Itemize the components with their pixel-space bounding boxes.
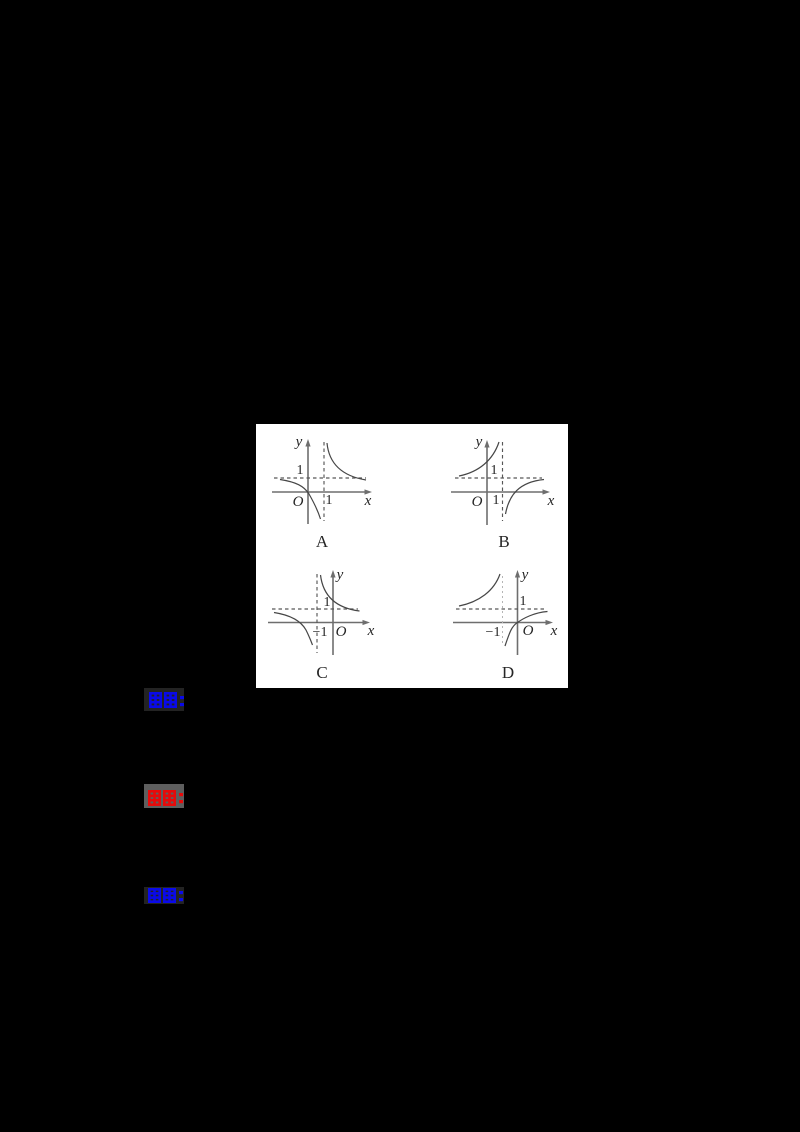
svg-text:C: C bbox=[316, 663, 327, 682]
svg-text:O: O bbox=[472, 494, 483, 510]
svg-text:D: D bbox=[502, 663, 514, 682]
graph D dashed horizontal asymptote y=1 bbox=[456, 608, 545, 610]
graph A dashed horizontal asymptote y=1 bbox=[274, 477, 366, 479]
graph A curve upper-right branch bbox=[327, 443, 366, 480]
graph C dashed horizontal asymptote y=1 bbox=[272, 608, 358, 610]
graph D curve lower-right branch bbox=[505, 612, 548, 647]
graph C x-axis bbox=[268, 622, 367, 624]
graph D y-axis bbox=[517, 574, 519, 655]
svg-text:y: y bbox=[335, 567, 344, 583]
svg-text:y: y bbox=[294, 434, 303, 450]
graph D curve upper-left branch bbox=[459, 574, 500, 606]
graph C curve upper-right branch bbox=[321, 575, 360, 611]
svg-text:O: O bbox=[523, 623, 534, 639]
graph C y-axis bbox=[332, 574, 334, 655]
svg-text:B: B bbox=[498, 532, 509, 551]
graph B dashed horizontal asymptote y=1 bbox=[455, 477, 542, 479]
svg-text:y: y bbox=[520, 567, 529, 583]
svg-text:x: x bbox=[550, 623, 558, 639]
graph B dashed vertical asymptote x=1 bbox=[502, 442, 504, 521]
svg-text:1: 1 bbox=[491, 463, 498, 478]
graph A dashed vertical asymptote x=1 bbox=[323, 442, 325, 521]
blue annotation label 1 (blurred Chinese text) bbox=[144, 688, 192, 716]
graph C dashed vertical asymptote x=-1 bbox=[316, 574, 318, 653]
svg-text:−1: −1 bbox=[313, 625, 328, 640]
graph A y-axis bbox=[307, 443, 309, 524]
red annotation label (blurred Chinese text on gray highlight) bbox=[144, 784, 194, 817]
svg-text:1: 1 bbox=[493, 493, 500, 508]
svg-text:y: y bbox=[474, 434, 483, 450]
svg-text:1: 1 bbox=[324, 595, 331, 610]
svg-text:O: O bbox=[336, 624, 347, 640]
svg-text:1: 1 bbox=[520, 594, 527, 609]
graph B curve upper-left branch bbox=[459, 442, 499, 476]
svg-text:x: x bbox=[547, 493, 555, 509]
graph B y-axis bbox=[486, 444, 488, 525]
graph D x-axis bbox=[453, 622, 550, 624]
svg-text:1: 1 bbox=[297, 463, 304, 478]
svg-text:O: O bbox=[293, 494, 304, 510]
graph B curve lower-right branch bbox=[506, 480, 545, 515]
graph B x-axis bbox=[451, 491, 547, 493]
blue annotation label 2 (blurred Chinese text) bbox=[144, 887, 192, 910]
svg-text:x: x bbox=[367, 623, 375, 639]
graph A x-axis bbox=[272, 491, 369, 493]
svg-text:−1: −1 bbox=[486, 625, 501, 640]
svg-text:1: 1 bbox=[326, 493, 333, 508]
graph C curve lower-left branch bbox=[274, 613, 313, 646]
graph D faint dotted vertical asymptote x=-1 bbox=[502, 576, 504, 646]
graph A curve lower-left branch bbox=[280, 480, 321, 520]
svg-text:A: A bbox=[316, 532, 329, 551]
figure panel with four answer-choice graphs bbox=[256, 424, 568, 688]
svg-text:x: x bbox=[364, 493, 372, 509]
